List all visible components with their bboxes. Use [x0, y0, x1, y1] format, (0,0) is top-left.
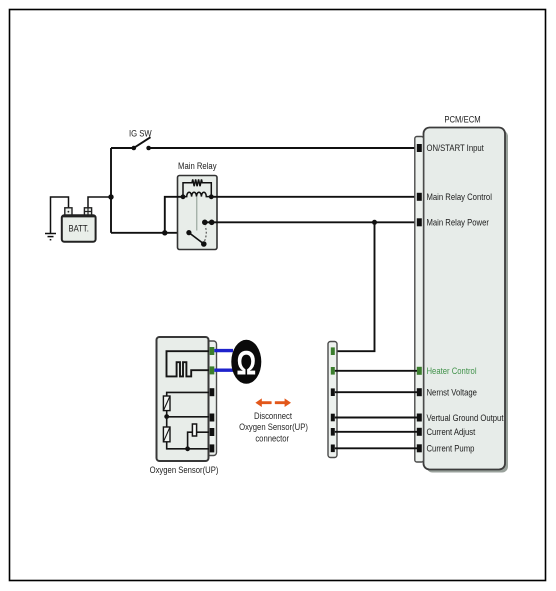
resistor R (lower) — [166, 417, 168, 427]
resistor (relay parallel resistor) — [183, 179, 211, 196]
strip pin 5 — [331, 428, 335, 436]
pin Current Adjust — [417, 428, 422, 436]
wire: Current Adjust row — [335, 431, 417, 433]
switch IG SW blade — [134, 137, 151, 148]
capacitor cell — [192, 424, 196, 436]
svg-text:ON/START Input: ON/START Input — [427, 142, 485, 153]
PCM connector strip — [415, 137, 424, 463]
node: coil left — [181, 194, 186, 199]
wire: ON/START input wire to PCM — [149, 147, 417, 149]
arrow right (orange) — [275, 398, 291, 407]
node: divider — [164, 414, 169, 419]
pin Vertual Ground Output — [417, 414, 422, 422]
dashed travel arc — [205, 226, 207, 241]
svg-text:Oxygen Sensor(UP): Oxygen Sensor(UP) — [150, 464, 219, 475]
middle connector strip — [328, 342, 337, 458]
node: junction bottom feed — [162, 230, 167, 235]
svg-text:Disconnect: Disconnect — [254, 410, 293, 421]
svg-text:Current Adjust: Current Adjust — [427, 426, 476, 437]
svg-text:Ω: Ω — [236, 344, 256, 382]
node: IG SW right contact — [146, 146, 151, 151]
strip pin 4 — [331, 414, 335, 422]
wire: Main Relay Power to PCM — [205, 221, 417, 223]
node: switch pivot — [186, 230, 191, 235]
wire: coil left to bottom feed — [165, 197, 183, 233]
wire: IG SW vertical feed — [110, 148, 112, 233]
sensor pin 2 (green) — [210, 366, 215, 374]
relay box Main Relay — [178, 176, 218, 250]
signal waveform symbol — [167, 351, 210, 376]
battery BATT. terminal left — [65, 208, 72, 216]
svg-text:connector: connector — [255, 433, 289, 444]
PCM/ECM box — [424, 128, 506, 470]
pin Current Pump — [417, 444, 422, 452]
svg-text:IG SW: IG SW — [129, 128, 152, 139]
node: IG SW left contact — [132, 146, 137, 151]
pin ON/START — [417, 144, 422, 152]
pin Main Relay Control — [417, 193, 422, 201]
relay armature link — [196, 197, 198, 231]
wire: Heater Control row — [335, 370, 417, 372]
strip pin 6 — [331, 445, 335, 453]
svg-text:Nernst Voltage: Nernst Voltage — [427, 387, 478, 398]
wire: Current Pump row — [335, 447, 417, 449]
node: power junction — [372, 220, 377, 225]
wire: top wire left segment to switch — [111, 147, 134, 149]
node: contact b — [209, 220, 215, 226]
wire: Vertual Ground row — [335, 417, 417, 419]
sensor pin 5 — [210, 428, 215, 436]
svg-text:Main Relay Power: Main Relay Power — [427, 217, 490, 228]
wire: power drop to connector — [335, 222, 375, 351]
ohmmeter — [231, 340, 261, 384]
note text — [239, 410, 308, 444]
svg-text:Main Relay Control: Main Relay Control — [427, 191, 492, 202]
svg-text:PCM/ECM: PCM/ECM — [444, 114, 480, 125]
oxygen sensor connector strip — [207, 341, 217, 456]
wire: bottom row inside — [167, 442, 209, 449]
wire: Main Relay Control to PCM — [211, 196, 417, 198]
svg-text:Main Relay: Main Relay — [178, 160, 217, 171]
PCM labels — [427, 142, 505, 453]
resistor R (upper) — [163, 396, 170, 411]
blue test lead 1 — [214, 349, 233, 352]
ground — [45, 234, 56, 240]
wire: battery negative lead — [51, 197, 69, 234]
sensor pin 6 — [210, 444, 215, 452]
blue test lead 2 — [214, 369, 233, 372]
node: coil right — [209, 194, 214, 199]
wire: pin3 row inside — [167, 392, 209, 396]
node: contact a — [202, 220, 208, 226]
sensor pin 3 — [210, 388, 215, 396]
strip pin 1 (green) — [331, 347, 335, 355]
svg-text:Oxygen Sensor(UP): Oxygen Sensor(UP) — [239, 421, 308, 432]
sensor pin 4 — [210, 414, 215, 422]
wire: battery positive lead — [88, 197, 111, 208]
wire: pin4 row inside — [167, 416, 209, 418]
strip pin 2 (green) — [331, 367, 335, 375]
pin Heater Control (green) — [417, 367, 422, 375]
svg-text:Vertual Ground Output: Vertual Ground Output — [427, 412, 505, 423]
oxygen sensor box — [157, 337, 209, 461]
node: bottom junction — [185, 446, 190, 451]
arrow left (orange) — [255, 398, 271, 407]
sensor pin 1 (green) — [210, 347, 215, 355]
battery BATT. body — [62, 215, 96, 242]
node: blade end — [201, 241, 207, 247]
pin Nernst Voltage — [417, 388, 422, 396]
svg-text:BATT.: BATT. — [69, 223, 89, 234]
inductor relay coil — [183, 192, 211, 196]
PCM shadow — [427, 131, 509, 473]
strip pin 3 — [331, 388, 335, 396]
svg-text:Heater Control: Heater Control — [427, 365, 477, 376]
battery BATT. terminal right — [84, 208, 91, 216]
wire: Nernst row — [335, 391, 417, 393]
svg-text:Current Pump: Current Pump — [427, 443, 475, 454]
wire: pin5 branch — [188, 432, 209, 449]
node: battery junction — [108, 194, 113, 199]
wire: bottom wire to relay switch — [111, 232, 189, 234]
pin Main Relay Power — [417, 218, 422, 226]
wire: resistor to node — [166, 411, 168, 418]
relay switch blade — [189, 233, 204, 244]
